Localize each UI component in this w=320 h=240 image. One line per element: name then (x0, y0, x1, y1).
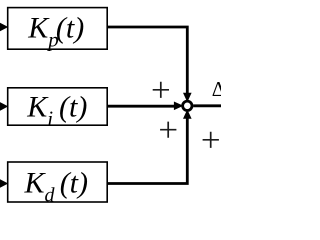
block Kp rectangle (8, 8, 108, 50)
svg-text:(t): (t) (56, 11, 84, 44)
block Kd rectangle (8, 162, 108, 202)
wire Kd output: right then up to junction (107, 119, 189, 185)
arrowhead up into junction bottom (183, 109, 192, 118)
summing junction circle (183, 101, 192, 110)
svg-text:(t): (t) (59, 91, 87, 124)
wire Ki output: straight right to junction (107, 105, 174, 108)
svg-text:Δu: Δu (212, 77, 221, 101)
svg-text:(t): (t) (60, 167, 88, 200)
arrowhead right into junction left (174, 102, 184, 111)
input arrow into Kp (0, 23, 8, 32)
output wire from junction to right edge (193, 104, 221, 107)
input arrow into Ki (0, 102, 8, 111)
plus sign upper-left of junction (153, 82, 169, 98)
input arrow into Kd (0, 179, 8, 188)
block Ki rectangle (8, 88, 108, 125)
arrowhead down into junction top (183, 93, 192, 102)
wire Kp output: right then down to junction (107, 26, 189, 94)
plus sign lower-right of junction (203, 132, 219, 148)
plus sign lower-left of junction (160, 122, 176, 138)
